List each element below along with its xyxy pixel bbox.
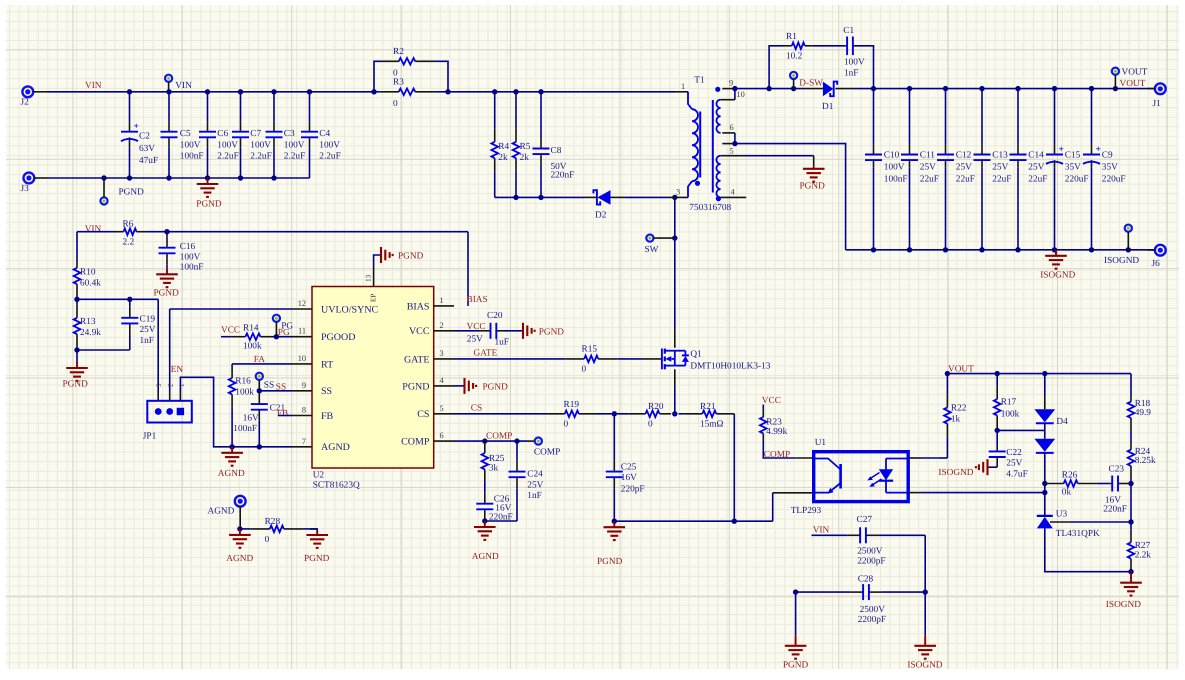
- resistor R20: [629, 402, 671, 430]
- wire: [504, 330, 522, 332]
- junction: [979, 247, 984, 252]
- junction: [205, 175, 210, 180]
- resistor R3: [374, 78, 448, 110]
- junction: [482, 438, 487, 443]
- svg-text:VIN: VIN: [175, 81, 192, 91]
- junction: [538, 89, 543, 94]
- junction: [74, 297, 79, 302]
- wire: [997, 429, 1045, 431]
- svg-text:100V: 100V: [180, 140, 201, 150]
- wire: [309, 147, 311, 178]
- svg-text:AGND: AGND: [472, 552, 499, 562]
- svg-text:BIAS: BIAS: [467, 295, 488, 305]
- svg-text:SS: SS: [264, 380, 274, 390]
- wire: [221, 336, 231, 338]
- value C21 100nF: [233, 424, 257, 434]
- svg-text:100V: 100V: [319, 140, 340, 150]
- pin of Q1 drain: [674, 328, 676, 348]
- wire: [981, 167, 983, 250]
- svg-text:R19: R19: [564, 400, 580, 410]
- capacitor C14: [1010, 144, 1048, 184]
- wire: [48, 177, 310, 179]
- junction: [979, 86, 984, 91]
- junction: [995, 428, 1000, 433]
- svg-text:PGND: PGND: [398, 252, 424, 262]
- capacitor C8: [533, 92, 575, 198]
- diode D2: [585, 190, 626, 220]
- svg-text:FA: FA: [254, 355, 265, 365]
- wire: [278, 415, 292, 417]
- power symbol PGND: [154, 268, 180, 298]
- svg-text:1nF: 1nF: [844, 69, 858, 79]
- resistor R2: [381, 47, 442, 79]
- net label FA: [254, 355, 265, 365]
- junction: [871, 247, 876, 252]
- svg-text:25V: 25V: [992, 162, 1008, 172]
- svg-text:R28: R28: [265, 517, 281, 527]
- svg-text:100V: 100V: [844, 57, 865, 67]
- svg-text:R14: R14: [243, 324, 259, 334]
- svg-text:VIN: VIN: [85, 224, 102, 234]
- junction: [257, 444, 262, 449]
- wire: [924, 535, 926, 636]
- wire: [989, 466, 998, 468]
- svg-text:C8: C8: [551, 146, 562, 156]
- pin of J3: [34, 177, 48, 179]
- wire: [813, 156, 815, 167]
- svg-text:C10: C10: [884, 150, 900, 160]
- pin of VOUT TP: [1114, 75, 1116, 89]
- junction: [1089, 86, 1094, 91]
- svg-text:0: 0: [265, 535, 270, 545]
- capacitor C6: [199, 122, 239, 162]
- wire: [1091, 167, 1093, 250]
- svg-text:8: 8: [302, 406, 306, 415]
- svg-text:35V: 35V: [1102, 162, 1118, 172]
- pin name SS: [321, 386, 332, 397]
- wire: [939, 457, 947, 459]
- wire: [981, 89, 983, 145]
- test point PG TP: [273, 315, 294, 332]
- svg-text:C27: C27: [857, 515, 873, 525]
- svg-text:2500V: 2500V: [860, 605, 886, 615]
- svg-text:CS: CS: [471, 403, 482, 413]
- junction: [166, 175, 171, 180]
- svg-text:GATE: GATE: [404, 354, 430, 365]
- svg-text:PGND: PGND: [483, 382, 509, 392]
- svg-text:25V: 25V: [1006, 459, 1022, 469]
- power symbol AGND: [218, 447, 245, 479]
- svg-text:5: 5: [440, 404, 444, 413]
- svg-text:U1: U1: [815, 438, 827, 448]
- svg-text:25V: 25V: [527, 480, 543, 490]
- svg-text:R15: R15: [582, 344, 598, 354]
- svg-text:PGND: PGND: [304, 554, 330, 564]
- svg-text:2500V: 2500V: [857, 546, 883, 556]
- svg-text:VOUT: VOUT: [1122, 68, 1148, 78]
- wire: [310, 529, 317, 531]
- junction: [166, 89, 171, 94]
- junction: [672, 411, 677, 416]
- junction: [127, 175, 132, 180]
- svg-text:R3: R3: [393, 78, 404, 88]
- capacitor C20: [467, 311, 509, 348]
- svg-text:0: 0: [648, 420, 653, 430]
- wire: [614, 520, 772, 522]
- svg-text:C7: C7: [250, 129, 261, 139]
- svg-text:PGND: PGND: [196, 200, 222, 210]
- wire: [147, 231, 469, 233]
- svg-text:C12: C12: [956, 150, 972, 160]
- transformer T1 secondary polarity dot 2: [716, 196, 721, 201]
- port J1: [1153, 83, 1166, 109]
- svg-text:4.7uF: 4.7uF: [1006, 469, 1027, 479]
- wire: [945, 167, 947, 250]
- svg-text:24.9k: 24.9k: [80, 328, 101, 338]
- junction: [1128, 569, 1133, 574]
- wire: [454, 413, 546, 415]
- svg-text:220pF: 220pF: [621, 484, 645, 494]
- resistor R16: [229, 364, 254, 447]
- svg-text:7: 7: [302, 437, 306, 446]
- svg-text:R6: R6: [123, 220, 134, 230]
- svg-text:0k: 0k: [1062, 487, 1072, 497]
- resistor R4: [491, 92, 509, 198]
- svg-text:2200pF: 2200pF: [858, 615, 886, 625]
- svg-text:AGND: AGND: [208, 506, 235, 516]
- wire: [597, 413, 629, 415]
- pin of SW TP: [654, 237, 675, 239]
- power symbol PGND: [783, 636, 809, 671]
- svg-text:25V: 25V: [920, 162, 936, 172]
- svg-text:100V: 100V: [284, 140, 305, 150]
- wire: [374, 255, 381, 267]
- pin name RT: [321, 359, 333, 370]
- svg-text:TLP293: TLP293: [791, 506, 822, 516]
- pin of PG TP: [275, 322, 277, 337]
- value T1: [689, 203, 731, 213]
- junction: [271, 89, 276, 94]
- svg-text:VOUT: VOUT: [1120, 79, 1146, 89]
- junction: [871, 86, 876, 91]
- power symbol ISOGND: [1040, 250, 1075, 281]
- svg-text:220nF: 220nF: [1103, 504, 1127, 514]
- junction: [907, 86, 912, 91]
- pin number 1: [178, 383, 186, 387]
- svg-text:R23: R23: [766, 417, 782, 427]
- test point SW TP: [645, 235, 659, 255]
- label AGND port: [208, 506, 235, 516]
- wire: [374, 61, 381, 92]
- svg-text:15mΩ: 15mΩ: [700, 420, 724, 430]
- svg-text:C13: C13: [992, 150, 1008, 160]
- svg-text:6: 6: [440, 431, 444, 440]
- wire: [945, 89, 947, 145]
- svg-text:22uF: 22uF: [956, 175, 975, 185]
- pin name VCC: [409, 326, 430, 337]
- svg-text:R25: R25: [489, 454, 505, 464]
- port J3: [21, 173, 35, 194]
- wire: [921, 492, 1045, 494]
- capacitor C19: [121, 299, 155, 350]
- junction: [612, 519, 617, 524]
- svg-text:VCC: VCC: [762, 396, 781, 406]
- transformer T1 pins 9 and 10: [721, 79, 745, 100]
- resistor R28: [240, 517, 317, 545]
- pin name PGND: [402, 381, 429, 392]
- junction: [127, 297, 132, 302]
- svg-text:COMP: COMP: [534, 447, 560, 457]
- svg-text:VIN: VIN: [85, 81, 102, 91]
- svg-text:AGND: AGND: [226, 554, 253, 564]
- junction: [943, 247, 948, 252]
- wire: [1091, 89, 1093, 145]
- svg-text:ISOGND: ISOGND: [1104, 256, 1139, 266]
- svg-text:C1: C1: [843, 26, 854, 36]
- pin of U1 cathode: [908, 492, 921, 494]
- junction: [943, 86, 948, 91]
- capacitor C27: [812, 515, 926, 567]
- resistor R25: [482, 441, 505, 480]
- svg-text:2k: 2k: [520, 153, 530, 163]
- svg-text:C2: C2: [139, 132, 150, 142]
- wire: [454, 358, 563, 360]
- pin 7 of U2: [292, 446, 312, 448]
- port J2: [21, 86, 34, 107]
- junction: [732, 141, 737, 146]
- svg-text:C25: C25: [621, 462, 637, 472]
- svg-text:9: 9: [729, 79, 733, 88]
- power symbol PGND: [63, 362, 89, 390]
- wire: [1044, 374, 1046, 395]
- shunt regulator U3: [1037, 509, 1100, 539]
- svg-text:16V: 16V: [243, 413, 259, 423]
- optocoupler U1: [791, 438, 909, 516]
- svg-text:J2: J2: [21, 98, 30, 108]
- net label VOUT: [1120, 79, 1146, 89]
- svg-text:R27: R27: [1135, 541, 1151, 551]
- svg-text:11: 11: [298, 327, 306, 336]
- wire: [745, 155, 814, 157]
- net label COMP: [486, 431, 512, 441]
- svg-text:D1: D1: [822, 102, 834, 112]
- svg-text:0: 0: [393, 99, 398, 109]
- svg-text:D4: D4: [1056, 417, 1068, 427]
- capacitor C7: [232, 122, 272, 162]
- power symbol PGND: [523, 323, 564, 339]
- svg-text:AGND: AGND: [218, 469, 245, 479]
- test point ISOGND TP: [1104, 225, 1139, 266]
- test point VOUT TP: [1112, 68, 1148, 78]
- svg-text:R5: R5: [520, 142, 531, 152]
- svg-text:1: 1: [178, 383, 186, 387]
- svg-text:35V: 35V: [1065, 162, 1081, 172]
- transformer T1 pin 4 stub: [721, 188, 747, 198]
- resistor R5: [513, 92, 531, 198]
- svg-text:100nF: 100nF: [233, 424, 257, 434]
- svg-text:SS: SS: [321, 386, 332, 397]
- pin 13 of U2: [364, 267, 377, 303]
- resistor R15: [563, 344, 619, 374]
- junction: [371, 89, 376, 94]
- wire: [77, 349, 130, 351]
- IC U2 body: [312, 287, 434, 491]
- wire: [76, 350, 78, 362]
- svg-text:3: 3: [440, 349, 444, 358]
- svg-text:1: 1: [440, 296, 444, 305]
- wire: [77, 298, 158, 300]
- test point VIN TP: [165, 75, 192, 91]
- svg-text:47uF: 47uF: [139, 156, 158, 166]
- wire: [1044, 453, 1046, 516]
- svg-text:R21: R21: [700, 402, 716, 412]
- pin number 11: [298, 327, 306, 336]
- junction: [205, 89, 210, 94]
- pin of AGND port: [239, 507, 241, 529]
- wire: [157, 299, 159, 391]
- svg-text:C15: C15: [1065, 150, 1081, 160]
- svg-text:3: 3: [155, 383, 163, 387]
- pin name FB: [321, 411, 334, 422]
- net label VCC: [221, 326, 240, 336]
- junction: [793, 589, 798, 594]
- svg-text:U2: U2: [313, 471, 325, 481]
- svg-text:49.9: 49.9: [1135, 408, 1152, 418]
- net label GATE: [474, 348, 498, 358]
- junction: [1042, 371, 1047, 376]
- svg-text:220uF: 220uF: [1065, 175, 1089, 185]
- wire: [909, 89, 911, 145]
- capacitor C12: [937, 144, 975, 184]
- svg-text:2200pF: 2200pF: [857, 556, 885, 566]
- svg-text:PGND: PGND: [539, 328, 565, 338]
- wire: [846, 249, 1154, 251]
- wire: [495, 196, 585, 198]
- svg-text:63V: 63V: [139, 144, 155, 154]
- wire: [873, 89, 875, 145]
- wire: [48, 91, 374, 93]
- svg-text:4.99k: 4.99k: [766, 427, 787, 437]
- svg-text:PGND: PGND: [154, 289, 180, 299]
- diode D1: [804, 82, 854, 113]
- svg-text:C3: C3: [284, 129, 295, 139]
- capacitor C21: [251, 391, 286, 447]
- svg-text:C9: C9: [1102, 150, 1113, 160]
- resistor R21: [679, 402, 735, 430]
- pin name GATE: [404, 354, 430, 365]
- svg-text:2k: 2k: [498, 153, 508, 163]
- pin of SS TP: [258, 380, 260, 391]
- svg-text:FB: FB: [277, 409, 288, 419]
- svg-text:25V: 25V: [140, 325, 156, 335]
- pin number 9: [302, 381, 306, 390]
- power symbol ISOGND: [938, 459, 987, 478]
- svg-text:ISOGND: ISOGND: [1040, 271, 1075, 281]
- junction: [274, 334, 279, 339]
- value C21 16V: [243, 413, 259, 423]
- wire: [168, 147, 170, 178]
- net label VCC: [467, 322, 486, 332]
- wire: [309, 92, 311, 122]
- wire: [169, 309, 171, 392]
- transformer T1 pin 5: [721, 146, 745, 155]
- net label BIAS: [467, 295, 488, 305]
- wire: [168, 92, 170, 122]
- junction: [732, 86, 737, 91]
- svg-text:10: 10: [737, 90, 745, 99]
- resistor R13: [74, 299, 102, 350]
- junction: [1113, 86, 1118, 91]
- wire: [129, 92, 131, 122]
- pin 3 of U2: [434, 358, 454, 360]
- wire: [1130, 484, 1132, 523]
- junction: [482, 518, 487, 523]
- pin number 6: [440, 431, 444, 440]
- svg-text:VOUT: VOUT: [948, 364, 974, 374]
- svg-text:PGND: PGND: [783, 661, 809, 671]
- svg-text:C11: C11: [920, 150, 936, 160]
- transistor Q1: [662, 349, 771, 372]
- junction: [538, 195, 543, 200]
- pin of J2: [33, 91, 48, 93]
- connector JP1: [143, 401, 192, 442]
- pin of JP1 2: [169, 392, 171, 401]
- resistor R19: [546, 400, 597, 429]
- svg-text:SCT81623Q: SCT81623Q: [313, 481, 360, 491]
- svg-text:100V: 100V: [217, 140, 238, 150]
- junction: [791, 86, 796, 91]
- junction: [238, 175, 243, 180]
- pin of U3 ref: [1050, 521, 1070, 523]
- svg-text:2.2uF: 2.2uF: [217, 152, 238, 162]
- svg-text:220uF: 220uF: [1102, 175, 1126, 185]
- wire: [921, 457, 939, 459]
- wire: [854, 88, 1154, 90]
- svg-text:750316708: 750316708: [689, 203, 731, 213]
- net label EN: [171, 365, 184, 375]
- svg-text:J6: J6: [1152, 259, 1161, 269]
- wire: [996, 430, 998, 445]
- resistor R10: [74, 260, 102, 299]
- wire: [76, 232, 78, 260]
- junction: [1089, 247, 1094, 252]
- svg-text:100V: 100V: [884, 162, 905, 172]
- wire: [1045, 528, 1131, 571]
- resistor R1: [784, 32, 813, 61]
- svg-text:2: 2: [440, 321, 444, 330]
- wire: [909, 167, 911, 250]
- junction: [237, 526, 242, 531]
- value C26 220nF: [489, 512, 513, 522]
- wire: [442, 61, 449, 92]
- svg-text:JP1: JP1: [143, 431, 157, 441]
- capacitor C11: [901, 144, 939, 184]
- junction: [766, 86, 771, 91]
- wire: [232, 363, 292, 365]
- test point SS TP: [256, 373, 274, 391]
- pin of U1 collector: [795, 457, 813, 459]
- svg-text:1nF: 1nF: [140, 336, 154, 346]
- transformer T1 secondary winding 1: [716, 100, 720, 133]
- capacitor C26: [476, 480, 509, 521]
- junction: [995, 371, 1000, 376]
- wire: [180, 377, 292, 447]
- wire: [454, 385, 464, 387]
- capacitor C9: [1083, 144, 1126, 184]
- svg-text:U3: U3: [1056, 509, 1068, 519]
- wire: [762, 405, 764, 410]
- pin 11 of U2: [292, 336, 312, 338]
